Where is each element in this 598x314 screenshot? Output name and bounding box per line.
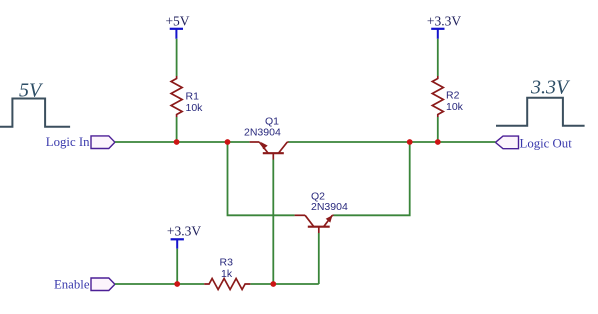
svg-text:3.3V: 3.3V: [530, 77, 571, 99]
svg-text:R2: R2: [446, 90, 460, 102]
port Logic In: [46, 135, 115, 149]
junction 3.3V/enable: [174, 281, 180, 287]
junction Q1 base/enable: [270, 281, 276, 287]
transistor Q2: [295, 215, 334, 233]
port Enable: [54, 278, 115, 292]
wire main left (Logic In to Q1 emitter): [115, 141, 250, 143]
wire R2 to main: [437, 117, 439, 142]
waveform 3.3V pulse: [496, 98, 585, 126]
junction node B: [407, 139, 413, 145]
wire Enable to R3: [115, 283, 204, 285]
arrow Q2 emitter: [326, 215, 333, 222]
arrow Q1 emitter: [261, 142, 268, 149]
svg-text:5V: 5V: [19, 80, 44, 102]
junction node A: [225, 139, 231, 145]
wire Q2 base down: [318, 233, 320, 284]
svg-text:Logic Out: Logic Out: [520, 137, 573, 151]
transistor Q1: [250, 142, 289, 160]
junction R2/main: [435, 139, 441, 145]
wire +3.3V enable stem down: [176, 249, 178, 284]
wire lower left branch: [228, 142, 295, 215]
wire lower right branch: [334, 142, 410, 215]
svg-text:+3.3V: +3.3V: [167, 223, 201, 238]
junction R1/main: [174, 139, 180, 145]
power +5V: [165, 14, 189, 39]
svg-text:Logic In: Logic In: [46, 135, 90, 149]
wire R1 to main: [176, 117, 178, 142]
resistor R2: [432, 76, 443, 117]
resistor R1: [171, 76, 182, 117]
wire Q1 base down: [272, 160, 274, 285]
wire main right (Q1 collector to Logic Out): [289, 141, 496, 143]
svg-text:2N3904: 2N3904: [311, 201, 348, 213]
wire +5V to R1: [176, 39, 178, 76]
wire R3 to bases: [250, 283, 318, 285]
wire +3.3V to R2: [437, 39, 439, 76]
svg-text:10k: 10k: [186, 102, 204, 114]
svg-text:R3: R3: [220, 257, 234, 269]
svg-text:+5V: +5V: [165, 14, 189, 29]
svg-text:R1: R1: [186, 91, 200, 103]
waveform 5V pulse: [0, 99, 70, 127]
resistor R3: [204, 279, 250, 290]
power +3.3V (enable): [167, 223, 201, 248]
svg-text:2N3904: 2N3904: [244, 127, 281, 139]
svg-text:1k: 1k: [221, 268, 233, 280]
power +3.3V (top right): [427, 14, 461, 39]
svg-text:+3.3V: +3.3V: [427, 14, 461, 29]
svg-text:10k: 10k: [446, 101, 464, 113]
port Logic Out: [495, 136, 572, 150]
svg-text:Enable: Enable: [54, 278, 90, 292]
